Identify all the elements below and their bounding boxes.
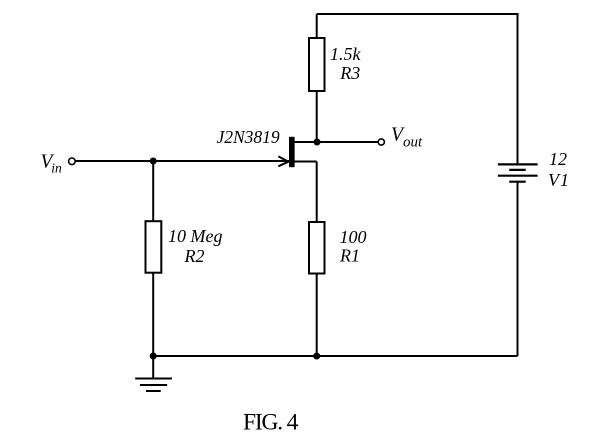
resistor R3 — [309, 38, 325, 91]
svg-text:100: 100 — [340, 227, 367, 247]
wire source horizontal — [295, 161, 317, 163]
wire R1 bottom lead — [316, 274, 318, 357]
svg-text:12: 12 — [549, 149, 567, 169]
transistor J1 channel bar — [289, 137, 295, 167]
label R2 value 10 Meg — [168, 226, 222, 246]
wire R3 bottom lead — [316, 91, 318, 142]
svg-text:1.5k: 1.5k — [330, 44, 362, 64]
wire battery bottom lead — [517, 182, 519, 356]
label J2N3819 — [216, 127, 279, 147]
wire R2 top lead — [152, 161, 154, 221]
label V1 — [548, 170, 570, 190]
node junction bottom middle — [313, 353, 320, 360]
resistor R2 — [146, 221, 162, 273]
wire R3 top lead — [316, 14, 318, 38]
wire drain horizontal — [295, 141, 317, 143]
node junction drain — [314, 139, 321, 146]
svg-text:in: in — [51, 161, 62, 176]
terminal Vout — [378, 139, 384, 145]
label R2 — [184, 246, 205, 266]
terminal Vin — [69, 158, 76, 165]
wire right rail — [517, 13, 519, 164]
wire top rail — [317, 13, 518, 15]
wire Vout lead — [317, 141, 379, 143]
svg-text:V1: V1 — [548, 170, 570, 190]
resistor R1 — [309, 222, 325, 274]
ground — [135, 356, 172, 391]
wire source vertical — [316, 162, 318, 223]
label R3 — [339, 63, 360, 83]
svg-text:J2N3819: J2N3819 — [216, 127, 279, 147]
node junction Vin/R2 — [150, 158, 157, 165]
svg-text:R2: R2 — [184, 246, 205, 266]
svg-text:FIG. 4: FIG. 4 — [243, 410, 299, 436]
label V1 value 12 — [549, 149, 567, 169]
svg-text:R3: R3 — [339, 63, 360, 83]
label Vout — [391, 125, 423, 151]
battery V1 — [498, 164, 538, 181]
wire bottom rail — [153, 355, 517, 357]
node junction bottom left — [150, 353, 157, 360]
wire Vin input — [76, 160, 290, 162]
label Vin — [41, 152, 63, 176]
svg-text:R1: R1 — [339, 246, 360, 266]
svg-text:10 Meg: 10 Meg — [168, 226, 222, 246]
wire R2 bottom lead — [152, 273, 154, 356]
label R1 — [339, 246, 360, 266]
svg-text:out: out — [403, 134, 423, 150]
caption FIG. 4 — [243, 410, 299, 436]
transistor J1 gate arrow — [278, 156, 288, 166]
label R1 value 100 — [340, 227, 367, 247]
label R3 value 1.5k — [330, 44, 362, 64]
